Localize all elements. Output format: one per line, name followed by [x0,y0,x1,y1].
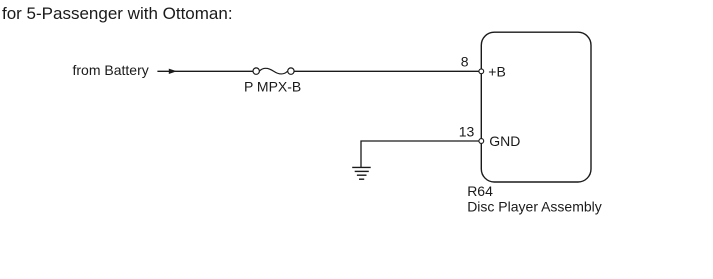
svg-text:GND: GND [489,133,520,149]
svg-text:+B: +B [488,63,506,79]
svg-text:from Battery: from Battery [73,62,149,78]
wire from Battery to fuse [157,70,253,72]
pin 8 terminal [479,69,484,74]
fuse P MPX-B [253,68,294,74]
svg-text:8: 8 [461,54,469,70]
pin 13 terminal [479,139,484,144]
ground [352,167,371,179]
svg-text:for 5-Passenger with Ottoman:: for 5-Passenger with Ottoman: [2,4,233,23]
svg-text:13: 13 [459,124,475,140]
svg-text:P MPX-B: P MPX-B [244,79,301,95]
wire pin 13 to ground [361,141,479,167]
connector box R64 Disc Player Assembly [481,32,591,182]
svg-text:R64: R64 [467,183,493,199]
arrowhead on battery wire [169,69,177,74]
wire fuse to pin 8 [294,70,480,72]
svg-text:Disc Player Assembly: Disc Player Assembly [467,198,602,214]
